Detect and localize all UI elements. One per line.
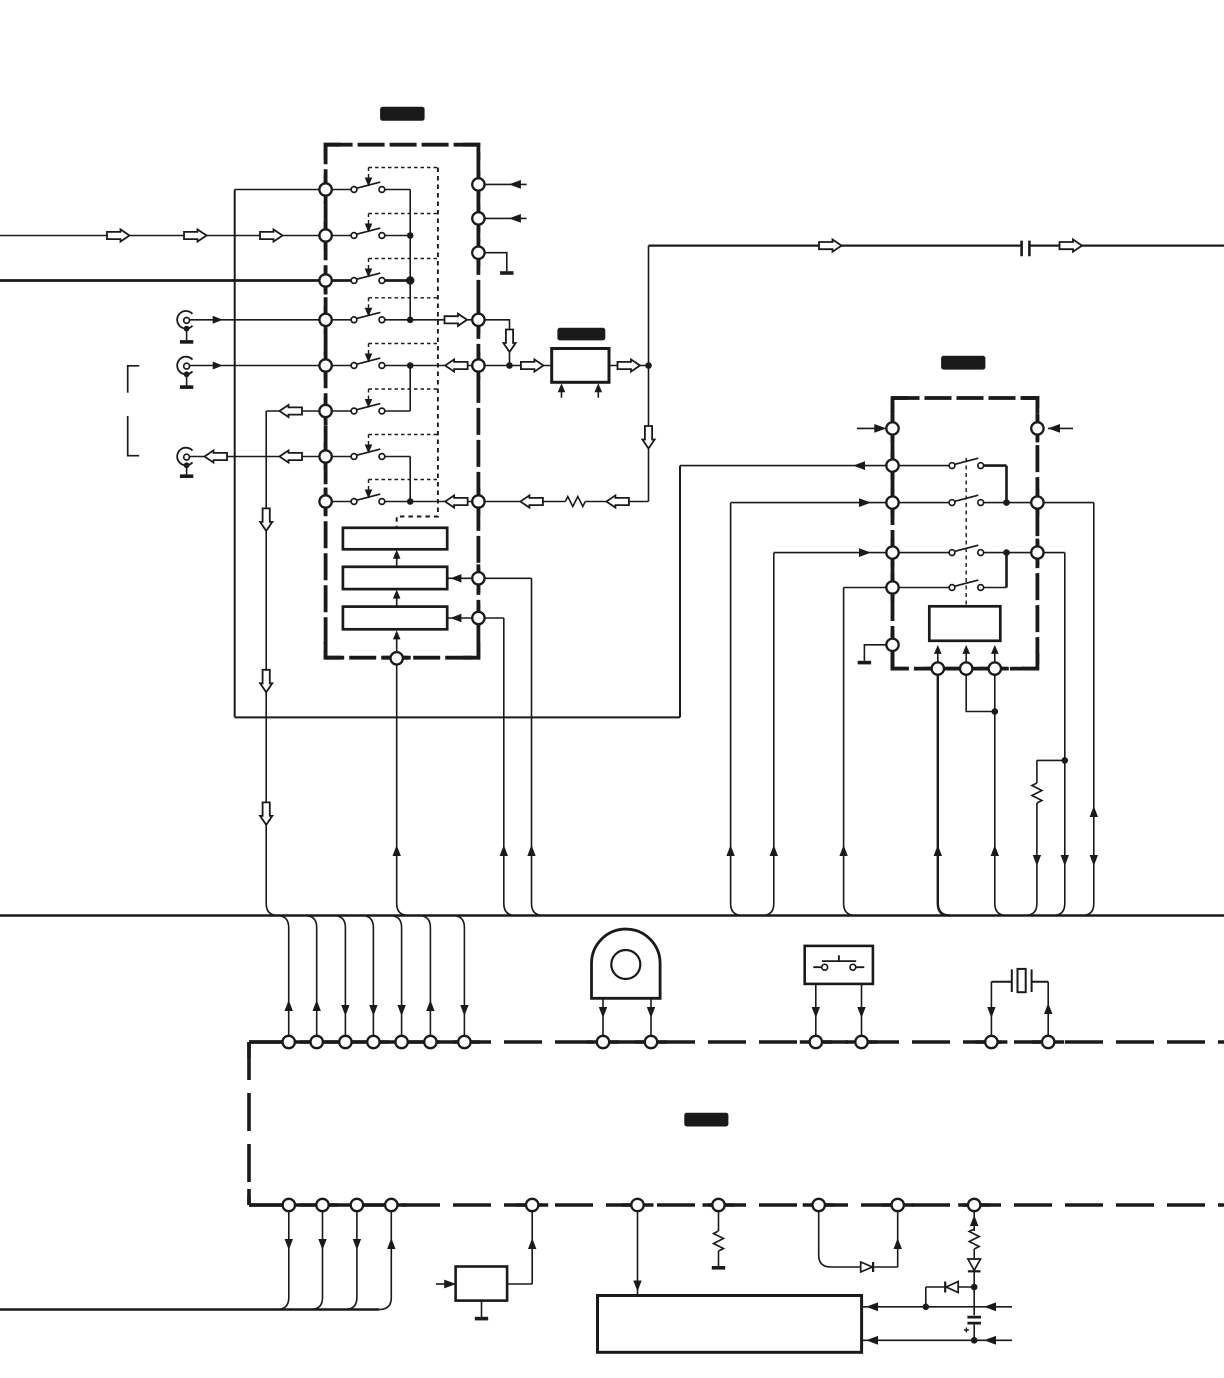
junction dot row3	[406, 276, 414, 284]
label plate for main board	[684, 1113, 728, 1127]
arrow into U5 on sense line	[866, 1302, 878, 1311]
register box R3 in IC1	[343, 607, 447, 630]
wire node OUT5 to DAC	[478, 365, 551, 367]
node IC1 left pin (325.6,456.5)	[319, 450, 331, 462]
node IC1 right pin (478.4,618)	[472, 612, 484, 624]
node board bottom pin (356.9,1205)	[351, 1199, 363, 1211]
sense line into U5	[862, 1306, 1012, 1308]
wire control input b to IC1	[478, 217, 526, 219]
branch wire to harness	[1025, 803, 1037, 916]
node IC3 left pin (892.5,552.6)	[886, 546, 898, 558]
riser for IC3 row3 (curves left)	[762, 553, 774, 916]
arrow clock node to R3	[396, 639, 398, 652]
wire vertical feedback left rail	[234, 190, 236, 718]
wire node OUT7 to jack J3	[190, 456, 326, 458]
wire U3 pin b joins pin c	[966, 669, 995, 712]
wire DAC node vertical	[648, 246, 650, 502]
wire R3 data from harness	[478, 618, 515, 916]
node board top pin (815.8,1042)	[810, 1036, 822, 1048]
X1 lead a	[990, 982, 992, 1036]
arrow from external on sense line	[984, 1302, 996, 1311]
signal arrow feedback (b)	[606, 495, 629, 507]
wire board through diode D1	[819, 1211, 861, 1267]
flow arrow down on DAC node vertical	[642, 426, 654, 449]
control dotted bus in IC1	[397, 168, 438, 528]
wire R2 data from harness	[478, 578, 543, 915]
signal arrow record line (b)	[1060, 240, 1083, 252]
wire S3-4 output	[984, 587, 1007, 589]
supply line into U5	[862, 1339, 1012, 1341]
node board top pin (603,1042)	[597, 1036, 609, 1048]
harness drop wire x=345.4	[333, 916, 345, 1037]
analog switch S1-4 in IC1	[326, 319, 352, 321]
harness drop wire x=464.4	[452, 916, 464, 1037]
junction dot node P2	[971, 1337, 978, 1344]
node IC3 left pin (892.5,428.4)	[886, 422, 898, 434]
up arrow on R3 data wire	[500, 845, 508, 856]
wire into IC3 row4 from harness riser	[844, 587, 893, 589]
output-flow arrow to J3 (b)	[280, 450, 303, 462]
diode D3	[946, 1282, 958, 1293]
push switch SW1 symbol	[813, 955, 864, 967]
node board bottom pin (532.2,1205)	[526, 1199, 538, 1211]
wire U3 pin c to harness	[995, 669, 1007, 916]
resistor R10 on feedback line	[565, 497, 585, 507]
node board bottom pin (718.5,1205)	[712, 1199, 724, 1211]
node board top pin (991.4,1042)	[985, 1036, 997, 1048]
solid border reinforcement	[324, 176, 328, 204]
node board top pin (401.6,1042)	[395, 1036, 407, 1048]
node IC1 right pin (478.4,365.5)	[472, 359, 484, 371]
stub arrow into IC3 left top	[857, 427, 886, 429]
wire control input a to IC1	[478, 183, 526, 185]
wire data node to R3	[447, 617, 478, 619]
node IC3 bottom pin (937.8,668.6)	[932, 662, 944, 674]
DAC box U2	[552, 349, 609, 383]
node board bottom pin (391.3,1205)	[385, 1199, 397, 1211]
R20 to ground	[718, 1251, 720, 1266]
flow arrow mute rail (a)	[260, 508, 272, 531]
node board bottom pin (974.2,1205)	[968, 1199, 980, 1211]
node IC1 left pin (325.6,319.8)	[319, 314, 331, 326]
wire monitor line into selector	[680, 465, 893, 467]
diode D1	[861, 1262, 873, 1272]
power block box U5	[598, 1296, 862, 1353]
sensor box U4	[456, 1267, 508, 1301]
riser for IC3 row2	[731, 503, 743, 916]
wire into IC3 row2 from harness riser	[731, 502, 893, 504]
node IC1 left pin (325.6,501.5)	[319, 495, 331, 507]
pull resistor branch wire	[1037, 760, 1065, 783]
signal arrow row8	[445, 495, 468, 507]
node IC1 left pin (325.6,411)	[319, 405, 331, 417]
analog switch S1-6 in IC1	[326, 410, 352, 412]
up arrow riser row2	[726, 845, 734, 856]
node IC1 left pin (325.6,365.5)	[319, 359, 331, 371]
flow arrow mute rail (c)	[260, 802, 272, 825]
RCA jack J3 (output)	[177, 448, 192, 466]
wire row3 node down to S3-4	[1005, 553, 1008, 588]
wire feedback into row8 left part	[478, 501, 565, 503]
motor M1 body	[592, 929, 661, 998]
harness drop wire x=316.7	[305, 916, 317, 1037]
junction dot row5	[407, 362, 414, 369]
wire row2 through to node	[984, 502, 1038, 504]
wire switch outputs common vertical (rows 1-4)	[409, 190, 411, 320]
control dashed line in IC3	[965, 458, 967, 606]
register box R1 in IC1	[343, 528, 447, 550]
U2 control stub b	[597, 390, 599, 398]
flow arrow down into DAC line	[503, 330, 515, 353]
harness drop wire x=401.6	[390, 916, 402, 1037]
signal arrow into DAC	[521, 359, 544, 371]
junction dot DAC input	[506, 362, 513, 369]
wire rows5-6 common vertical	[409, 366, 411, 412]
wire D2 to node P1	[973, 1271, 975, 1287]
node IC3 right pin (1037.4,502.6)	[1031, 496, 1043, 508]
signal arrow row4	[445, 314, 468, 326]
resistor R20	[714, 1231, 724, 1251]
register box R2 in IC1	[343, 567, 447, 589]
RCA jack J2	[177, 357, 192, 375]
signal arrow feedback (a)	[520, 495, 543, 507]
signal-flow arrow on input line 2 (b)	[184, 229, 207, 241]
capacitor C1 on record line	[1022, 241, 1030, 257]
wire row5 to node OUT5	[410, 365, 478, 367]
stub arrow into IC3 right top	[1048, 427, 1073, 429]
arrow on J1 wire	[213, 316, 223, 324]
wire record output line	[649, 245, 1224, 247]
node IC1 right pin (478.4,501.5)	[472, 495, 484, 507]
node IC1 left pin (325.6,189.5)	[319, 183, 331, 195]
wire DAC output	[609, 365, 649, 367]
signal-flow arrow on input line 2 (a)	[107, 229, 130, 241]
arrow on monitor line pointing left	[853, 461, 865, 470]
arrow control a into U3	[937, 653, 939, 662]
junction dot IC3 row2	[1003, 499, 1010, 506]
crystal X1	[991, 969, 1048, 992]
wire row6 exits left to mute rail	[266, 410, 325, 412]
wire IC1 ground pin	[478, 253, 506, 272]
wire data node to R2	[447, 577, 478, 579]
wire row8 to node OUT8	[410, 501, 478, 503]
junction dot pull branch	[1062, 757, 1069, 764]
node board top pin (430.4,1042)	[424, 1036, 436, 1048]
ground symbol at U4	[475, 1317, 488, 1321]
signal arrow record line (a)	[819, 240, 842, 252]
junction dot row2	[407, 232, 414, 239]
node IC1 right pin (478.4,319.8)	[472, 314, 484, 326]
harness drop wire x=288.7	[277, 916, 289, 1037]
node IC1 left pin (325.6,235.5)	[319, 229, 331, 241]
resistor R12 on branch	[1032, 783, 1042, 803]
signal arrow row6 left	[280, 405, 303, 417]
analog switch S3-3 in IC3	[893, 552, 950, 554]
node IC3 left pin (892.5,644.8)	[886, 639, 898, 651]
signal-flow arrow on input line 2 (c)	[260, 229, 283, 241]
arrow control b into U3	[965, 653, 967, 662]
node IC1 right pin (478.4,218.4)	[472, 212, 484, 224]
capacitor C10 electrolytic	[973, 1287, 975, 1340]
mute rail vertical with curve into harness	[266, 411, 278, 916]
label plate for IC3	[941, 356, 985, 370]
node board top pin (345.4,1042)	[339, 1036, 351, 1048]
wire S3-1 output to row2 node	[984, 466, 1007, 503]
wire S3-3 output node	[984, 552, 1038, 554]
node board top pin (316.7,1042)	[311, 1036, 323, 1048]
board output wire x=322.5	[311, 1211, 323, 1310]
wire U4 output up to board	[507, 1211, 532, 1284]
main board dashed border	[249, 1042, 1224, 1205]
up arrow after D1	[894, 1238, 902, 1249]
node IC1 bottom pin (396.7,658.3)	[391, 652, 403, 664]
flow arrow mute rail (b)	[260, 670, 272, 693]
analog switch S1-5 in IC1	[326, 365, 352, 367]
wire IC3 ground pin	[864, 645, 892, 661]
motor M1 lead b	[650, 998, 652, 1036]
arrow on J2 wire	[213, 362, 223, 370]
node IC1 right pin (478.4,578.3)	[472, 572, 484, 584]
wire U3 pin a to harness	[938, 669, 950, 916]
up arrow riser row4	[839, 845, 847, 856]
analog switch S3-4 in IC3	[893, 587, 950, 589]
ground symbol at R20	[712, 1266, 725, 1270]
node IC3 bottom pin (966.2,668.6)	[960, 662, 972, 674]
junction dot row8	[407, 498, 414, 505]
wire jack J2 to node IN5	[190, 365, 326, 367]
analog switch S1-8 in IC1	[326, 501, 352, 503]
label plate for IC1	[380, 107, 425, 121]
node board bottom pin (897.7,1205)	[892, 1199, 904, 1211]
wire D1 up to board	[873, 1211, 898, 1267]
node IC3 right pin (1037.4,428.4)	[1031, 422, 1043, 434]
arrow control c into U3	[994, 653, 996, 662]
node IC3 left pin (892.5,587.5)	[886, 581, 898, 593]
up arrow on clock wire	[393, 845, 401, 856]
SW1 lead b	[861, 984, 863, 1036]
wire board to power block	[637, 1211, 639, 1296]
selector block IC3 dashed border	[893, 398, 1038, 669]
node IC3 left pin (892.5,502.6)	[886, 496, 898, 508]
motor M1 inner circle	[611, 950, 640, 979]
node IC3 left pin (892.5,465.6)	[886, 459, 898, 471]
switch block IC1 dashed border	[326, 145, 479, 658]
node IC1 right pin (478.4,252.7)	[472, 247, 484, 259]
down arrow on that wire	[1090, 855, 1098, 866]
up arrow on R2 data wire	[527, 845, 535, 856]
node board top pin (1048.2,1042)	[1042, 1036, 1054, 1048]
arrow into U5 on supply line	[866, 1336, 878, 1345]
analog switch S1-3 in IC1	[326, 279, 352, 282]
node board top pin (861.5,1042)	[855, 1036, 867, 1048]
harness drop wire x=373.4	[361, 916, 373, 1037]
node board top pin (464.4,1042)	[458, 1036, 470, 1048]
wire R21 to D2	[973, 1249, 975, 1259]
up arrow on that wire	[1090, 806, 1098, 817]
junction dot IC3 row3	[1003, 549, 1010, 556]
node IC3 right pin (1037.4,552.6)	[1031, 546, 1043, 558]
board output wire x=288.8	[277, 1211, 289, 1310]
arrow R3 to R2	[396, 597, 398, 606]
node board top pin (288.7,1042)	[283, 1036, 295, 1048]
up arrow on U4 wire	[528, 1238, 536, 1249]
wire D3 down to sense line	[926, 1287, 945, 1307]
node IC3 bottom pin (994.8,668.6)	[989, 662, 1001, 674]
riser for IC3 row4	[844, 588, 856, 916]
diode D2	[968, 1259, 981, 1270]
wire board to R20	[718, 1211, 720, 1231]
U2 control stub a	[561, 390, 563, 398]
wire rows7-8 common vertical	[409, 457, 411, 502]
up arrow U3 pin c wire	[991, 845, 999, 856]
up arrow riser row3	[770, 845, 778, 856]
analog switch S1-7 in IC1	[326, 456, 352, 458]
board output wire x=356.9	[345, 1211, 357, 1310]
down arrow on row3 harness wire	[1061, 855, 1069, 866]
node board bottom pin (818.7,1205)	[813, 1199, 825, 1211]
ground symbol at IC3	[858, 661, 871, 665]
node board bottom pin (637.5,1205)	[631, 1199, 643, 1211]
wire board down to R21	[973, 1211, 975, 1231]
stub arrow into U4	[436, 1283, 445, 1285]
analog switch S1-2 in IC1	[326, 235, 352, 237]
wire from node A1 to switch-block row 1	[235, 189, 326, 191]
wire bottom feedback run	[235, 716, 680, 718]
node board bottom pin (322.5,1205)	[316, 1199, 328, 1211]
node IC1 right pin (478.4,184.4)	[472, 178, 484, 190]
arrow from external on supply line	[984, 1336, 996, 1345]
junction dot node P1	[971, 1284, 978, 1291]
main wiring harness line	[0, 914, 1224, 917]
up arrow under board	[970, 1215, 978, 1226]
RCA jack J1	[177, 311, 192, 329]
wire row4 to node OUT4	[410, 319, 478, 321]
resistor R21	[969, 1229, 979, 1249]
label plate for U2	[557, 328, 605, 341]
junction dot DAC output node	[645, 362, 652, 369]
X1 lead b	[1047, 982, 1049, 1036]
wire IC3 right node row3 to harness	[1037, 553, 1064, 916]
wire jack J1 to node IN4	[190, 319, 326, 321]
analog switch S3-2 in IC3	[893, 502, 950, 504]
output-flow arrow to J3 (a)	[205, 450, 228, 462]
junction dot row4	[407, 317, 414, 324]
output harness to front panel	[0, 1308, 379, 1310]
wire node P1 through diode D3	[958, 1286, 974, 1288]
push switch SW1 box	[805, 946, 873, 984]
U4 ground stem	[481, 1301, 483, 1317]
node IC1 left pin (325.6,280.5)	[319, 274, 331, 286]
signal arrow DAC output	[618, 359, 641, 371]
up arrow U3 pin a wire	[934, 845, 942, 856]
junction dot on sense line	[923, 1304, 930, 1311]
wire IC3 right node row2 to harness	[1037, 503, 1093, 916]
wire input line 2 (to node IN2)	[0, 235, 326, 237]
wire feedback into row8 right part	[585, 501, 648, 503]
control box U3 in IC3	[929, 606, 1000, 641]
wire clock from harness to IC1 bottom	[397, 658, 409, 915]
signal arrow row5	[445, 359, 468, 371]
analog switch S3-1 in IC3	[893, 465, 950, 467]
board output wire x=391.3	[379, 1211, 391, 1310]
arrow R2 to R1	[396, 557, 398, 566]
node board top pin (651,1042)	[645, 1036, 657, 1048]
down arrow on branch	[1033, 855, 1041, 866]
harness drop wire x=430.4	[418, 916, 430, 1037]
wire into IC3 row3 from harness riser	[774, 552, 893, 554]
connector bracket at jacks	[128, 366, 140, 456]
node board bottom pin (288.8,1205)	[283, 1199, 295, 1211]
junction dot pins b-c	[992, 708, 999, 715]
wire vertical riser to monitor line	[679, 466, 681, 718]
ground symbol at IC1	[500, 271, 513, 275]
motor M1 lead a	[602, 998, 604, 1036]
wire input line 3 thick (to node IN3)	[0, 279, 326, 282]
wire node OUT4 jog down to DAC input	[478, 320, 509, 366]
analog switch S1-1 in IC1	[326, 189, 352, 191]
SW1 lead a	[815, 984, 817, 1036]
node board top pin (373.4,1042)	[367, 1036, 379, 1048]
